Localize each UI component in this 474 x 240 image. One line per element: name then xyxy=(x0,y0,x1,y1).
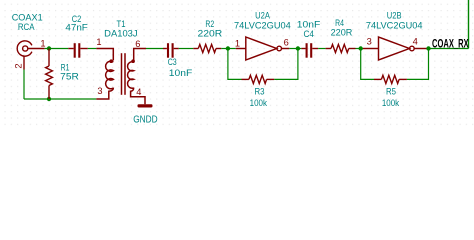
svg-text:74LVC2GU04: 74LVC2GU04 xyxy=(234,20,291,30)
op-amp U2A xyxy=(236,37,289,60)
svg-text:220R: 220R xyxy=(331,28,353,38)
svg-text:220R: 220R xyxy=(198,28,223,38)
junction node C xyxy=(226,46,230,50)
wire U2B out to COAX_RX node xyxy=(427,48,469,50)
wire T1 pin6 to C3 xyxy=(146,48,163,50)
core xyxy=(121,53,123,95)
svg-text:3: 3 xyxy=(97,86,102,96)
resistor R5 xyxy=(374,75,407,83)
left winding xyxy=(106,61,114,89)
svg-text:10nF: 10nF xyxy=(169,68,193,78)
svg-text:4: 4 xyxy=(413,37,418,47)
resistor R2 xyxy=(193,44,221,52)
wire coax pin2 down xyxy=(23,70,25,100)
svg-text:10nF: 10nF xyxy=(297,19,321,29)
wire R2 to U2A xyxy=(221,48,236,50)
junction node D xyxy=(296,46,300,50)
capacitor C3 xyxy=(163,43,179,58)
junction node F xyxy=(426,46,430,50)
svg-text:6: 6 xyxy=(135,39,140,49)
svg-text:2: 2 xyxy=(13,63,23,68)
right winding xyxy=(128,62,134,89)
svg-text:U2B: U2B xyxy=(387,10,402,20)
pin 1 elbow xyxy=(96,49,113,61)
svg-text:RCA: RCA xyxy=(18,22,35,32)
svg-text:U2A: U2A xyxy=(255,10,270,20)
svg-text:C3: C3 xyxy=(168,57,177,67)
svg-text:75R: 75R xyxy=(60,72,79,82)
pin 6 elbow xyxy=(134,49,146,61)
op-amp U2B xyxy=(363,37,427,60)
svg-text:R4: R4 xyxy=(335,18,344,28)
connector COAX1 xyxy=(17,41,44,70)
junction node B xyxy=(47,97,51,101)
svg-text:COAX_RX: COAX_RX xyxy=(432,38,469,50)
feedback loop A wires xyxy=(228,49,298,80)
svg-text:R2: R2 xyxy=(205,19,214,29)
capacitor C4 xyxy=(301,43,318,58)
polarity dot left xyxy=(109,59,113,63)
polarity dot right xyxy=(131,59,135,63)
wire R4 to U2B xyxy=(356,48,364,50)
junction node A xyxy=(47,46,51,50)
svg-text:C4: C4 xyxy=(304,29,315,39)
svg-text:74LVC2GU04: 74LVC2GU04 xyxy=(366,20,423,30)
svg-text:DA103J: DA103J xyxy=(104,28,137,38)
junction node E xyxy=(359,46,363,50)
wire C4 to R4 xyxy=(318,48,325,50)
wire coax pin1 to C2 xyxy=(45,48,69,50)
svg-text:1: 1 xyxy=(235,39,240,49)
wire C2 to T1 xyxy=(88,48,97,50)
wire U2A out to C4 xyxy=(289,48,301,50)
svg-text:47nF: 47nF xyxy=(65,23,88,33)
wire up to top edge xyxy=(468,0,470,49)
pin 3 elbow xyxy=(96,88,113,99)
wire bottom horizontal xyxy=(24,98,96,100)
svg-text:R3: R3 xyxy=(255,87,265,97)
svg-text:4: 4 xyxy=(136,87,141,97)
svg-text:GNDD: GNDD xyxy=(133,115,157,126)
resistor R1 xyxy=(46,49,53,100)
svg-text:6: 6 xyxy=(284,38,289,48)
transformer T1 xyxy=(96,49,146,105)
capacitor C2 xyxy=(68,43,88,58)
feedback loop B wires xyxy=(361,49,429,80)
pin 4 elbow xyxy=(131,88,145,105)
svg-text:100k: 100k xyxy=(382,98,400,108)
resistor R4 xyxy=(326,44,356,52)
svg-text:3: 3 xyxy=(367,37,372,47)
ground GNDD xyxy=(138,104,153,107)
svg-text:1: 1 xyxy=(40,39,45,49)
svg-text:100k: 100k xyxy=(250,98,268,108)
svg-text:R5: R5 xyxy=(386,87,396,97)
resistor R3 xyxy=(242,75,275,83)
wire C3 to R2 xyxy=(179,48,194,50)
svg-text:1: 1 xyxy=(96,37,101,47)
